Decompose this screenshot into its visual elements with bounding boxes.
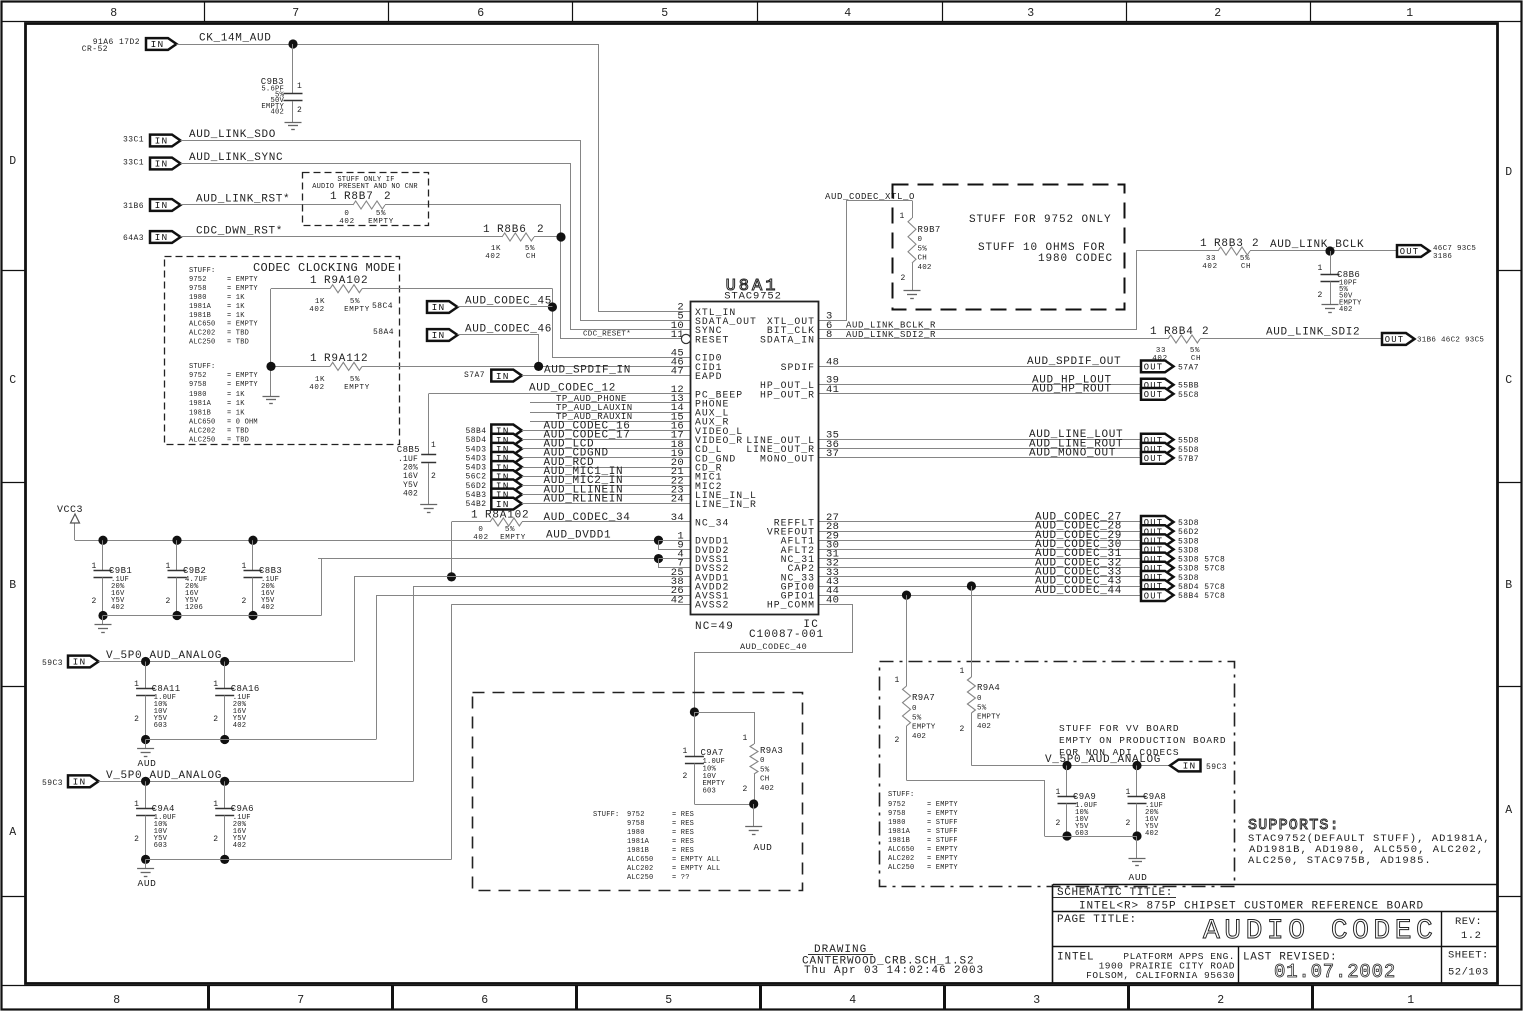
svg-text:R8B3: R8B3 [1214, 238, 1244, 250]
svg-text:46C7 93C5: 46C7 93C5 [1433, 245, 1476, 253]
svg-text:AUD_MONO_OUT: AUD_MONO_OUT [1029, 448, 1116, 460]
svg-text:AUD_CODEC_34: AUD_CODEC_34 [544, 512, 631, 524]
svg-text:CK_14M_AUD: CK_14M_AUD [199, 33, 272, 45]
svg-text:33: 33 [1206, 255, 1216, 263]
svg-text:3: 3 [1033, 994, 1041, 1007]
svg-text:IN: IN [151, 39, 165, 50]
svg-text:IN: IN [1183, 761, 1197, 772]
svg-text:55BB: 55BB [1178, 382, 1199, 391]
svg-text:0: 0 [760, 757, 765, 765]
svg-text:C9A9: C9A9 [1073, 792, 1096, 802]
svg-text:9752: 9752 [627, 811, 645, 819]
svg-text:AUD_CODEC_45: AUD_CODEC_45 [465, 296, 552, 308]
svg-text:52/103: 52/103 [1448, 967, 1489, 979]
svg-text:AUD_CODEC_40: AUD_CODEC_40 [740, 642, 807, 652]
svg-text:2: 2 [384, 191, 391, 203]
svg-text:6: 6 [477, 7, 485, 20]
svg-text:EAPD: EAPD [695, 371, 723, 382]
svg-text:V_5P0_AUD_ANALOG: V_5P0_AUD_ANALOG [1045, 754, 1161, 766]
svg-text:58B4: 58B4 [465, 427, 486, 436]
svg-text:1: 1 [166, 562, 171, 571]
svg-text:NC=49: NC=49 [695, 621, 734, 633]
svg-text:54D3: 54D3 [465, 464, 486, 473]
svg-text:= EMPTY ALL: = EMPTY ALL [672, 856, 720, 864]
svg-text:= 1K: = 1K [227, 400, 245, 408]
svg-text:C9B1: C9B1 [109, 566, 132, 576]
svg-text:58D4 57C8: 58D4 57C8 [1178, 583, 1225, 592]
svg-text:AUD_HP_ROUT: AUD_HP_ROUT [1032, 383, 1112, 395]
svg-text:4: 4 [844, 7, 852, 20]
svg-text:MONO_OUT: MONO_OUT [760, 453, 815, 464]
svg-text:V_5P0_AUD_ANALOG: V_5P0_AUD_ANALOG [106, 770, 222, 782]
svg-text:1980: 1980 [189, 391, 207, 399]
svg-text:A: A [9, 826, 17, 839]
svg-text:40: 40 [826, 594, 839, 606]
svg-text:R9A3: R9A3 [760, 746, 783, 756]
svg-text:AUD_LINK_SYNC: AUD_LINK_SYNC [189, 152, 283, 164]
svg-text:2: 2 [1318, 291, 1323, 300]
svg-text:OUT: OUT [1400, 247, 1419, 257]
svg-text:5: 5 [665, 994, 673, 1007]
svg-text:A: A [1505, 804, 1513, 817]
svg-text:1: 1 [431, 441, 436, 450]
svg-text:HP_OUT_R: HP_OUT_R [760, 389, 815, 400]
svg-text:C: C [9, 374, 17, 387]
svg-text:402: 402 [977, 723, 991, 731]
svg-text:402: 402 [309, 306, 324, 314]
svg-text:= EMPTY: = EMPTY [227, 381, 258, 389]
svg-text:= 1K: = 1K [227, 410, 245, 418]
svg-text:REV:: REV: [1455, 916, 1482, 928]
svg-text:SHEET:: SHEET: [1448, 950, 1489, 962]
svg-text:2: 2 [895, 736, 900, 745]
svg-text:53D8: 53D8 [1178, 546, 1199, 555]
svg-text:D: D [9, 155, 17, 168]
svg-text:2: 2 [242, 597, 247, 606]
svg-text:5%: 5% [760, 766, 770, 774]
svg-text:603: 603 [154, 722, 168, 730]
svg-text:C8B5: C8B5 [397, 445, 420, 455]
svg-text:= 1K: = 1K [227, 294, 245, 302]
svg-text:B: B [9, 579, 17, 592]
svg-text:47: 47 [671, 366, 684, 378]
svg-text:C: C [1505, 374, 1513, 387]
svg-text:8: 8 [113, 994, 121, 1007]
svg-text:37: 37 [826, 448, 839, 460]
svg-text:= STUFF: = STUFF [927, 819, 958, 827]
svg-text:AUD: AUD [138, 758, 157, 769]
svg-text:LINE_IN_R: LINE_IN_R [695, 499, 757, 510]
svg-text:5%: 5% [1190, 347, 1200, 355]
svg-text:= 0 OHM: = 0 OHM [227, 419, 258, 427]
svg-text:1: 1 [1056, 788, 1061, 797]
svg-text:5: 5 [661, 7, 669, 20]
svg-text:= TBD: = TBD [227, 339, 249, 347]
svg-text:0: 0 [912, 705, 917, 713]
svg-text:1: 1 [1200, 238, 1207, 250]
svg-text:2: 2 [134, 835, 139, 844]
svg-text:58D4: 58D4 [465, 436, 486, 445]
svg-text:58C4: 58C4 [372, 302, 393, 311]
svg-text:9752: 9752 [189, 276, 207, 284]
svg-text:PAGE TITLE:: PAGE TITLE: [1057, 914, 1137, 926]
svg-text:C9A8: C9A8 [1143, 792, 1166, 802]
svg-text:1: 1 [960, 667, 965, 676]
svg-text:402: 402 [270, 109, 284, 117]
svg-text:OUT: OUT [1144, 454, 1163, 464]
svg-text:1: 1 [310, 275, 317, 287]
svg-text:33C1: 33C1 [123, 136, 144, 145]
svg-text:VCC3: VCC3 [57, 505, 83, 516]
svg-text:AUD_LINK_SDI2: AUD_LINK_SDI2 [1266, 327, 1360, 339]
svg-text:31B6: 31B6 [123, 202, 144, 211]
svg-text:402: 402 [261, 604, 275, 612]
svg-text:56D2: 56D2 [465, 482, 486, 491]
svg-text:2: 2 [743, 785, 748, 794]
svg-text:1: 1 [743, 734, 748, 743]
svg-text:CODEC CLOCKING MODE: CODEC CLOCKING MODE [253, 261, 396, 275]
svg-text:CDC_RESET*: CDC_RESET* [583, 330, 631, 338]
svg-text:EMPTY ON PRODUCTION BOARD: EMPTY ON PRODUCTION BOARD [1059, 735, 1227, 746]
svg-text:5%: 5% [918, 245, 928, 253]
svg-text:IN: IN [155, 136, 169, 147]
svg-text:1981B: 1981B [627, 847, 649, 855]
svg-text:STUFF:: STUFF: [189, 267, 215, 275]
svg-text:2: 2 [1202, 326, 1209, 338]
svg-text:9758: 9758 [888, 810, 906, 818]
svg-text:2: 2 [431, 472, 436, 481]
svg-text:R9A4: R9A4 [977, 683, 1000, 693]
svg-text:R9A102: R9A102 [324, 275, 368, 287]
svg-text:ALC650: ALC650 [189, 321, 215, 329]
svg-text:EMPTY: EMPTY [912, 724, 936, 732]
svg-text:1: 1 [1407, 994, 1415, 1007]
svg-text:C8B3: C8B3 [259, 566, 282, 576]
svg-text:C8A11: C8A11 [152, 684, 181, 694]
svg-text:Thu Apr 03 14:02:46 2003: Thu Apr 03 14:02:46 2003 [804, 965, 984, 977]
svg-text:EMPTY: EMPTY [977, 714, 1001, 722]
svg-text:1980: 1980 [189, 294, 207, 302]
svg-text:= TBD: = TBD [227, 437, 249, 445]
svg-text:CH: CH [1241, 263, 1251, 271]
svg-text:FOLSOM, CALIFORNIA 95630: FOLSOM, CALIFORNIA 95630 [1086, 970, 1235, 981]
svg-text:2: 2 [166, 597, 171, 606]
svg-text:= EMPTY: = EMPTY [227, 372, 258, 380]
svg-text:1: 1 [1126, 788, 1131, 797]
svg-text:5%: 5% [912, 714, 922, 722]
svg-text:2: 2 [213, 835, 218, 844]
svg-text:OUT: OUT [1144, 591, 1163, 601]
svg-text:5%: 5% [350, 376, 360, 384]
svg-text:402: 402 [485, 253, 500, 261]
svg-text:STUFF FOR VV BOARD: STUFF FOR VV BOARD [1059, 723, 1180, 734]
svg-text:= TBD: = TBD [227, 428, 249, 436]
svg-text:1: 1 [895, 676, 900, 685]
svg-text:= EMPTY: = EMPTY [227, 276, 258, 284]
svg-text:1: 1 [92, 562, 97, 571]
svg-text:41: 41 [826, 384, 839, 396]
svg-text:34: 34 [671, 512, 684, 524]
svg-text:INTEL<R> 875P CHIPSET CUSTOMER: INTEL<R> 875P CHIPSET CUSTOMER REFERENCE… [1079, 901, 1424, 913]
svg-text:0: 0 [478, 526, 483, 534]
svg-text:0: 0 [977, 695, 982, 703]
svg-text:402: 402 [233, 722, 247, 730]
svg-text:59C3: 59C3 [1206, 763, 1227, 772]
svg-text:= EMPTY: = EMPTY [227, 285, 258, 293]
svg-text:59C3: 59C3 [42, 659, 63, 668]
svg-text:SPDIF: SPDIF [781, 362, 815, 373]
svg-text:54D3: 54D3 [465, 454, 486, 463]
svg-text:ALC250: ALC250 [627, 874, 653, 882]
svg-text:9752: 9752 [189, 372, 207, 380]
svg-text:= STUFF: = STUFF [927, 828, 958, 836]
svg-text:C9B2: C9B2 [183, 566, 206, 576]
svg-text:= RES: = RES [672, 829, 694, 837]
svg-text:C9A7: C9A7 [701, 748, 724, 758]
svg-text:402: 402 [912, 733, 926, 741]
svg-text:53D8: 53D8 [1178, 574, 1199, 583]
svg-text:ALC202: ALC202 [189, 428, 215, 436]
svg-text:0: 0 [344, 210, 349, 218]
svg-text:2: 2 [134, 715, 139, 724]
svg-text:1: 1 [134, 800, 139, 809]
svg-text:402: 402 [918, 264, 932, 272]
svg-text:1: 1 [297, 82, 302, 91]
svg-text:01.07.2002: 01.07.2002 [1274, 961, 1396, 983]
svg-text:603: 603 [703, 788, 717, 796]
svg-text:= EMPTY: = EMPTY [927, 810, 958, 818]
svg-text:1: 1 [213, 800, 218, 809]
svg-text:2: 2 [213, 715, 218, 724]
svg-text:54D3: 54D3 [465, 445, 486, 454]
svg-text:1: 1 [683, 747, 688, 756]
svg-text:2: 2 [1217, 994, 1225, 1007]
svg-text:1980 CODEC: 1980 CODEC [1038, 253, 1113, 265]
svg-text:ALC250: ALC250 [189, 339, 215, 347]
svg-text:= TBD: = TBD [227, 330, 249, 338]
svg-text:24: 24 [671, 494, 684, 506]
svg-text:9758: 9758 [627, 820, 645, 828]
svg-text:1: 1 [1406, 7, 1414, 20]
svg-text:EMPTY: EMPTY [368, 218, 394, 226]
svg-text:1: 1 [330, 191, 337, 203]
svg-text:STAC9752: STAC9752 [724, 291, 782, 303]
svg-text:1981A: 1981A [888, 828, 911, 836]
svg-text:STUFF FOR 9752 ONLY: STUFF FOR 9752 ONLY [969, 214, 1112, 226]
svg-text:OUT: OUT [1144, 390, 1163, 400]
svg-text:1980: 1980 [627, 829, 645, 837]
svg-text:33: 33 [1156, 347, 1166, 355]
svg-text:53D8 57C8: 53D8 57C8 [1178, 565, 1225, 574]
svg-text:9758: 9758 [189, 381, 207, 389]
svg-text:IN: IN [155, 200, 169, 211]
svg-text:1: 1 [134, 680, 139, 689]
svg-text:D: D [1505, 166, 1513, 179]
svg-text:5%: 5% [1240, 255, 1250, 263]
svg-text:8: 8 [110, 7, 118, 20]
svg-text:= EMPTY: = EMPTY [927, 801, 958, 809]
svg-text:0: 0 [918, 236, 923, 244]
svg-text:= 1K: = 1K [227, 391, 245, 399]
svg-text:AUD_LINK_RST*: AUD_LINK_RST* [196, 194, 290, 206]
svg-text:53D8 57C8: 53D8 57C8 [1178, 556, 1225, 565]
svg-text:OUT: OUT [1385, 335, 1404, 345]
svg-text:2: 2 [960, 725, 965, 734]
svg-text:C8A16: C8A16 [231, 684, 260, 694]
svg-text:CH: CH [918, 255, 927, 263]
svg-text:7: 7 [297, 994, 305, 1007]
svg-text:AUD: AUD [754, 842, 773, 853]
svg-text:31B6 46C2 93C5: 31B6 46C2 93C5 [1417, 337, 1484, 345]
svg-text:6: 6 [481, 994, 489, 1007]
svg-text:402: 402 [760, 785, 774, 793]
svg-text:AUD_LINK_SDO: AUD_LINK_SDO [189, 129, 276, 141]
svg-text:2: 2 [1214, 7, 1222, 20]
svg-text:402: 402 [111, 604, 125, 612]
svg-text:= EMPTY: = EMPTY [927, 864, 958, 872]
svg-text:= EMPTY: = EMPTY [227, 321, 258, 329]
svg-text:= EMPTY: = EMPTY [927, 855, 958, 863]
svg-text:55D8: 55D8 [1178, 446, 1199, 455]
svg-text:33C1: 33C1 [123, 159, 144, 168]
svg-text:2: 2 [537, 224, 544, 236]
svg-text:R9A112: R9A112 [324, 353, 368, 365]
svg-text:2: 2 [901, 274, 906, 283]
svg-text:1981A: 1981A [627, 838, 650, 846]
svg-text:55D8: 55D8 [1178, 437, 1199, 446]
svg-text:IN: IN [155, 159, 169, 170]
svg-text:R8B7: R8B7 [344, 191, 374, 203]
svg-text:= RES: = RES [672, 820, 694, 828]
svg-text:HP_COMM: HP_COMM [767, 600, 815, 611]
svg-text:9758: 9758 [189, 285, 207, 293]
svg-text:AUD_RLINEIN: AUD_RLINEIN [544, 493, 624, 505]
svg-text:59C3: 59C3 [42, 779, 63, 788]
svg-text:ALC650: ALC650 [189, 419, 215, 427]
svg-text:CH: CH [1191, 355, 1201, 363]
svg-text:402: 402 [403, 489, 418, 498]
svg-text:1: 1 [242, 562, 247, 571]
svg-text:INTEL: INTEL [1057, 952, 1095, 964]
svg-text:IN: IN [432, 302, 446, 313]
svg-text:9752: 9752 [888, 801, 906, 809]
svg-text:54B3: 54B3 [465, 491, 486, 500]
svg-text:AUD: AUD [1129, 872, 1148, 883]
svg-text:402: 402 [233, 842, 247, 850]
svg-text:R8B4: R8B4 [1164, 326, 1194, 338]
svg-text:58A4: 58A4 [373, 328, 394, 337]
svg-text:48: 48 [826, 356, 839, 368]
svg-text:1981A: 1981A [189, 400, 212, 408]
svg-text:AUD: AUD [138, 878, 157, 889]
svg-text:CR-52: CR-52 [82, 45, 108, 54]
svg-text:ALC250, STAC975B, AD1985.: ALC250, STAC975B, AD1985. [1248, 855, 1432, 867]
svg-text:C8B6: C8B6 [1337, 270, 1360, 280]
svg-text:5%: 5% [525, 245, 535, 253]
svg-text:AUD_SPDIF_IN: AUD_SPDIF_IN [544, 365, 631, 377]
svg-text:AVSS2: AVSS2 [695, 600, 729, 611]
svg-text:C9A6: C9A6 [231, 804, 254, 814]
svg-text:1: 1 [213, 680, 218, 689]
svg-text:STUFF:: STUFF: [888, 791, 914, 799]
svg-text:AUD_SPDIF_OUT: AUD_SPDIF_OUT [1027, 356, 1121, 368]
svg-text:5%: 5% [977, 704, 987, 712]
svg-text:= EMPTY: = EMPTY [927, 846, 958, 854]
svg-text:2: 2 [1252, 238, 1259, 250]
svg-text:1981B: 1981B [189, 410, 211, 418]
svg-text:56C2: 56C2 [465, 473, 486, 482]
svg-text:CH: CH [760, 776, 769, 784]
svg-text:402: 402 [309, 384, 324, 392]
svg-text:V_5P0_AUD_ANALOG: V_5P0_AUD_ANALOG [106, 650, 222, 662]
svg-text:1: 1 [1318, 264, 1323, 273]
svg-text:EMPTY: EMPTY [344, 306, 370, 314]
svg-text:IN: IN [432, 330, 446, 341]
svg-text:IN: IN [155, 232, 169, 243]
svg-text:CDC_DWN_RST*: CDC_DWN_RST* [196, 226, 283, 238]
svg-text:603: 603 [154, 842, 168, 850]
svg-text:= RES: = RES [672, 838, 694, 846]
svg-text:402: 402 [1145, 830, 1159, 838]
svg-text:5%: 5% [350, 298, 360, 306]
svg-text:8: 8 [826, 329, 833, 341]
svg-text:2: 2 [1056, 819, 1061, 828]
svg-text:2: 2 [683, 772, 688, 781]
svg-text:ALC202: ALC202 [627, 865, 653, 873]
svg-text:= STUFF: = STUFF [927, 837, 958, 845]
svg-text:= RES: = RES [672, 847, 694, 855]
svg-text:NC_34: NC_34 [695, 517, 729, 528]
svg-text:1981B: 1981B [888, 837, 910, 845]
svg-text:1981A: 1981A [189, 303, 212, 311]
svg-text:EMPTY: EMPTY [344, 384, 370, 392]
svg-text:1K: 1K [491, 245, 501, 253]
svg-text:2: 2 [1126, 819, 1131, 828]
svg-text:= RES: = RES [672, 811, 694, 819]
svg-text:R9A7: R9A7 [912, 693, 935, 703]
svg-text:57B7: 57B7 [1178, 455, 1199, 464]
svg-text:C10087-001: C10087-001 [749, 629, 824, 641]
svg-text:OUT: OUT [1144, 363, 1163, 373]
svg-text:AUD_DVDD1: AUD_DVDD1 [546, 530, 611, 542]
svg-text:1K: 1K [315, 298, 325, 306]
svg-text:56D2: 56D2 [1178, 528, 1199, 537]
svg-text:42: 42 [671, 594, 684, 606]
svg-text:S7A7: S7A7 [464, 371, 485, 380]
svg-text:3186: 3186 [1433, 253, 1452, 261]
svg-text:58B4 57C8: 58B4 57C8 [1178, 592, 1225, 601]
svg-text:SDATA_IN: SDATA_IN [760, 334, 815, 345]
svg-text:IN: IN [496, 499, 510, 510]
svg-text:AUD_CODEC_12: AUD_CODEC_12 [529, 383, 616, 395]
svg-text:B: B [1505, 579, 1513, 592]
svg-text:AUDIO PRESENT AND NO CNR: AUDIO PRESENT AND NO CNR [312, 183, 418, 191]
svg-text:RESET: RESET [695, 334, 729, 345]
svg-text:1: 1 [900, 212, 905, 221]
svg-text:= 1K: = 1K [227, 312, 245, 320]
svg-text:ALC202: ALC202 [189, 330, 215, 338]
svg-text:ALC202: ALC202 [888, 855, 914, 863]
svg-text:= 1K: = 1K [227, 303, 245, 311]
svg-text:4: 4 [849, 994, 857, 1007]
svg-text:1981B: 1981B [189, 312, 211, 320]
svg-text:54B2: 54B2 [465, 500, 486, 509]
svg-text:SUPPORTS:: SUPPORTS: [1248, 817, 1340, 834]
svg-text:5%: 5% [505, 526, 515, 534]
svg-text:55C8: 55C8 [1178, 391, 1199, 400]
svg-text:53D8: 53D8 [1178, 537, 1199, 546]
svg-text:IN: IN [73, 777, 87, 788]
